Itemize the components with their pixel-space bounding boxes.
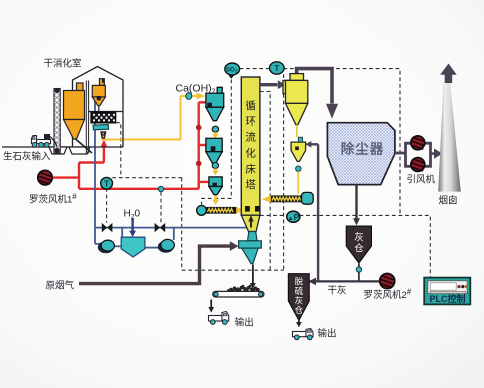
yellow arrow hopper1 to hopper2: [214, 132, 216, 134]
dashed control line T1 down column: [283, 74, 285, 270]
silo big: [64, 83, 85, 139]
svg-text:仓: 仓: [295, 305, 304, 315]
truck output right: [293, 329, 314, 337]
svg-text:环: 环: [245, 116, 256, 128]
svg-text:干消化室: 干消化室: [44, 58, 82, 70]
arrow bin to truck: [298, 320, 300, 322]
screen box hatched: [91, 112, 116, 123]
valve teal on Ca(OH)2 line: [186, 93, 192, 100]
svg-text:灰: 灰: [354, 232, 364, 244]
flue gas arrowhead into venturi: [230, 241, 239, 251]
duct dust collector to ash silo: [355, 185, 357, 219]
rotary valve 1: [212, 126, 218, 132]
svg-text:输出: 输出: [235, 317, 254, 329]
red arrow into building: [100, 140, 107, 147]
svg-text:原烟气: 原烟气: [46, 280, 75, 292]
svg-text:PLC控制: PLC控制: [429, 293, 465, 304]
svg-text:化: 化: [245, 147, 256, 160]
svg-text:塔: 塔: [245, 178, 256, 191]
silo big chute: [76, 139, 93, 153]
svg-text:SO2: SO2: [226, 66, 238, 73]
node teal dot on red line: [158, 186, 163, 191]
dashed control line T2 down to valve: [106, 188, 108, 223]
svg-text:罗茨风机1#: 罗茨风机1#: [29, 192, 77, 206]
dashed control line trunk to PLC: [260, 215, 430, 277]
dashed control line screen box down: [116, 123, 121, 178]
dashed control line SO2 down to conveyor circle: [202, 80, 232, 205]
node red dot lower: [196, 161, 202, 167]
dashed control line T1 right and down right column: [283, 69, 400, 216]
wire ash silo down: [358, 264, 360, 282]
arrow venturi to conveyor: [252, 265, 254, 284]
pump left: [98, 241, 114, 253]
blower roots 2: [380, 274, 395, 289]
dashed control line node to right valve: [160, 192, 162, 223]
pit 2: [69, 147, 90, 154]
conveyor output: [213, 291, 264, 297]
svg-text:硫: 硫: [295, 286, 304, 296]
truck quicklime input: [32, 136, 51, 144]
wire ash hopper to right conveyor: [297, 171, 299, 194]
svg-text:流: 流: [245, 131, 256, 144]
ash silo: [346, 226, 371, 263]
dashed control line SO2 to T1: [107, 69, 431, 278]
dashed control line left column: [181, 178, 183, 271]
wire dry ash line: [310, 280, 380, 282]
fan rotor upper: [411, 136, 425, 150]
hopper teal 1: [206, 87, 224, 120]
tower text: [245, 99, 256, 191]
wire cyclone tip to ash valve: [296, 125, 298, 138]
cyclone: [283, 74, 308, 125]
yellow arrow conveyor into tower right: [262, 195, 271, 202]
blower roots 1: [38, 170, 52, 184]
svg-text:灰: 灰: [295, 296, 304, 306]
bucket elevator: [54, 89, 60, 154]
material heap on conveyor: [227, 285, 260, 292]
duct dust collector to fan: [395, 152, 406, 155]
svg-text:生石灰输入: 生石灰输入: [3, 151, 51, 163]
hopper teal 3: [209, 177, 222, 195]
yellow arrow conveyor into tower: [236, 207, 244, 214]
valve right bowtie: [155, 223, 166, 232]
tower CFB: [241, 77, 260, 215]
dashed control line T2 to left column: [112, 177, 181, 179]
node teal dot under ash hopper: [296, 166, 301, 171]
chimney: [438, 83, 461, 192]
wire red blower1 to manifold: [52, 102, 209, 189]
silo small: [92, 79, 105, 106]
conveyor left recycle: [206, 207, 236, 214]
svg-text:脱: 脱: [295, 277, 304, 287]
fan rotor lower: [411, 158, 425, 172]
pump right: [158, 241, 174, 253]
svg-text:输出: 输出: [318, 328, 337, 340]
water tank: [121, 237, 145, 257]
H2O arrow: [131, 219, 133, 232]
pit 1: [49, 147, 67, 154]
svg-text:烟囱: 烟囱: [439, 195, 458, 207]
yellow arrow hopper3 to conveyor: [214, 196, 217, 201]
arrow conveyor to truck: [210, 300, 212, 308]
venturi body teal: [239, 241, 262, 248]
svg-text:引风机: 引风机: [407, 174, 436, 186]
svg-text:循: 循: [245, 99, 256, 112]
svg-text:T: T: [274, 63, 280, 73]
conveyor right recycle: [271, 195, 304, 202]
svg-text:仓: 仓: [354, 243, 364, 255]
svg-text:罗茨风机2#: 罗茨风机2#: [364, 288, 412, 302]
silo small outlet square: [97, 96, 101, 100]
svg-text:T: T: [104, 179, 110, 189]
tower cone yellow: [241, 215, 260, 231]
svg-text:除尘器: 除尘器: [341, 141, 385, 157]
conveyor left drive circle: [197, 206, 207, 216]
rotary feeder funnel: [100, 131, 106, 138]
svg-text:床: 床: [245, 162, 256, 175]
instrument T2 circle: [101, 177, 113, 189]
dust collector: [327, 123, 395, 185]
wire recycle line to desulf ash bin: [317, 144, 319, 281]
wire flue gas duct: [79, 246, 231, 284]
valve left bowtie: [102, 223, 113, 232]
yellow arrow hopper2 to hopper3: [214, 169, 216, 171]
fan induced draft frame: [406, 143, 431, 166]
column pair: [86, 81, 88, 154]
truck output left: [209, 312, 229, 322]
venturi neck teal: [248, 232, 258, 241]
duct cyclone to dust collector: [297, 69, 332, 104]
tower bottom squares: [245, 206, 250, 212]
wire yellow Ca(OH)2 feed: [102, 96, 197, 140]
arrow fan to chimney: [431, 152, 435, 155]
rotary valve 2: [212, 163, 218, 169]
yellow arrow into hopper1: [197, 93, 206, 100]
arrow chimney exhaust: [445, 74, 453, 83]
instrument dP circle: [287, 211, 300, 222]
node red dot upper: [196, 125, 202, 131]
dashed control line bottom horizontal: [182, 269, 284, 271]
feeder teal plate: [93, 125, 109, 130]
wire water line blue: [95, 101, 248, 248]
node teal dot under ash silo: [356, 267, 361, 272]
hopper teal 2: [206, 138, 222, 163]
instrument T1 circle: [270, 62, 285, 74]
svg-text:Ca(OH)2: Ca(OH)2: [176, 83, 216, 96]
instrument SO2 circle: [229, 74, 234, 79]
arrow up inside tower bottom: [250, 221, 252, 228]
ash hopper small under cyclone: [298, 137, 302, 142]
PLC controller: [424, 278, 470, 305]
arrow tower to cyclone: [260, 83, 278, 86]
dashed control line tower right tick and column: [260, 92, 270, 271]
svg-text:干灰: 干灰: [328, 285, 347, 297]
building dry slaking room: [2, 67, 123, 148]
desulf ash bin: [288, 274, 309, 321]
